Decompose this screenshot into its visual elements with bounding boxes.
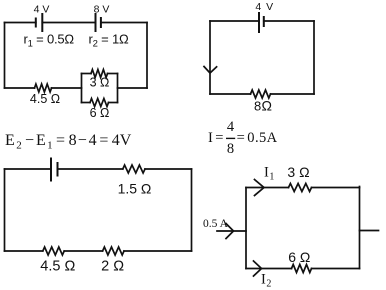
svg-text:1.5 Ω: 1.5 Ω [118,181,152,197]
resistor 6ohm (C4 bottom branch) [292,265,312,273]
current arrow I1 on top branch [255,180,265,196]
wire: C3 top-left segment [5,168,52,170]
wire: C4 top branch [246,187,289,189]
svg-text:r2 = 1Ω: r2 = 1Ω [89,32,129,50]
current arrow 0.5 A on input lead [226,224,234,239]
svg-text:=0.5A: =0.5A [237,130,278,146]
resistor 4.5ohm (C3) [43,247,64,255]
wire: parallel box top-left stub [82,73,92,75]
svg-text:I1: I1 [264,165,274,183]
battery E1 (4 V) short plate [35,19,37,27]
battery 4 V (C2) long plate [258,13,260,32]
wire: C1 bottom-left segment [5,87,35,89]
wire: C2 left side [209,21,211,94]
resistor 3ohm (C1 parallel top) [91,70,108,78]
wire: C2 bottom-left segment [210,93,251,95]
svg-text:4.5 Ω: 4.5 Ω [40,259,75,275]
wire: parallel box bottom-left stub [82,102,91,104]
resistor 1.5ohm (C3) [123,165,145,173]
svg-text:E2−E1=8−4=4V: E2−E1=8−4=4V [5,132,132,152]
battery E2 (8 V) long plate [95,14,97,31]
wire: parallel box right side [117,74,119,103]
wire: parallel box bottom-right stub [109,102,118,104]
svg-text:8Ω: 8Ω [254,98,272,114]
wire: C3 bottom-right segment [124,250,192,252]
wire: C3 right side [191,169,193,251]
wire: C1 bottom-right segment [118,87,148,89]
battery E1 (4 V) long plate [41,14,43,31]
svg-text:4: 4 [227,119,235,135]
resistor 3ohm (C4 top branch) [289,184,312,192]
resistor 2ohm (C3) [103,247,124,255]
wire: C2 top-left segment [210,20,259,22]
wire: parallel box left side [81,74,83,103]
wire: C1 top middle segment [42,22,95,24]
battery (C3) short plate [57,163,59,176]
svg-text:8 V: 8 V [94,4,110,16]
svg-text:0.5 A: 0.5 A [203,218,229,230]
wire: C2 right side [313,21,315,94]
svg-text:r1 = 0.5Ω: r1 = 0.5Ω [24,32,75,50]
wire: C4 right bus [359,187,361,269]
battery (C3) long plate [50,159,52,181]
wire: C4 top branch right segment [312,187,360,189]
wire: C1 top-left segment [5,22,36,24]
wire: C3 bottom middle segment [64,250,102,252]
svg-text:4 V: 4 V [34,4,50,16]
wire: C1 left side [4,23,6,89]
equation fraction bar [226,137,235,139]
resistor 4.5ohm (C1) [35,84,52,92]
wire: C3 bottom-left segment [5,250,43,252]
svg-text:I2: I2 [261,272,271,290]
wire: C3 top-right segment [145,168,192,170]
current arrow on C2 left side [204,67,217,74]
wire: C4 left bus [245,188,247,269]
svg-text:3 Ω: 3 Ω [287,164,309,180]
wire: C3 top middle segment [58,168,123,170]
svg-text:4 V: 4 V [255,1,274,13]
wire: C4 output lead [360,230,379,232]
battery E2 (8 V) short plate [100,18,102,27]
wire: C1 right side [146,23,148,89]
svg-text:6 Ω: 6 Ω [288,249,310,265]
wire: C4 bottom branch [246,268,292,270]
current arrow I2 on bottom branch [254,261,262,276]
wire: parallel box top-right stub [108,73,118,75]
resistor 6ohm (C1 parallel bottom) [90,99,109,107]
wire: C3 left side [4,169,6,251]
svg-text:6 Ω: 6 Ω [90,106,110,120]
battery 4 V (C2) short plate [263,17,265,26]
wire: C2 bottom-right segment [271,93,315,95]
wire: C2 top-right segment [264,20,314,22]
wire: C4 input lead [217,230,246,232]
svg-text:4.5 Ω: 4.5 Ω [30,92,60,106]
svg-text:8: 8 [227,141,234,157]
resistor 8ohm (C2) [251,90,271,98]
wire: C4 bottom branch right segment [312,268,360,270]
svg-text:I=: I= [208,130,223,146]
svg-text:2 Ω: 2 Ω [101,259,124,275]
wire: C1 bottom segment to parallel box [52,87,82,89]
wire: C1 top-right segment [101,22,147,24]
svg-text:3 Ω: 3 Ω [90,76,110,90]
